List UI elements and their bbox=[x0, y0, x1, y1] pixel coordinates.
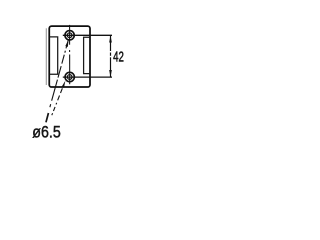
leader L1 tail tick bbox=[46, 113, 49, 122]
leader line L2 (bottom hole to label) dash segments bbox=[52, 88, 63, 115]
svg-text:42: 42 bbox=[113, 50, 124, 66]
hole H1 inner circle bbox=[67, 33, 72, 38]
extension line from hole H1 bbox=[63, 34, 112, 36]
svg-text:ø6.5: ø6.5 bbox=[32, 123, 61, 142]
dimension arrow up bbox=[109, 35, 112, 42]
extension line from hole H2 bbox=[63, 76, 112, 78]
plate outline bbox=[49, 26, 90, 87]
hole H1 outer circle bbox=[65, 31, 74, 40]
hole H2 outer circle bbox=[65, 72, 74, 81]
leader L1 arrowhead bbox=[65, 40, 68, 47]
vertical centerline bbox=[69, 25, 71, 84]
left slot bbox=[50, 37, 58, 74]
dimension arrow down bbox=[109, 70, 112, 77]
dimension line 42 bbox=[110, 35, 112, 77]
leader line L1 (top hole to label) dash segments bbox=[50, 40, 68, 107]
leader L2 arrowhead bbox=[62, 81, 66, 88]
left flange tangent line bbox=[45, 28, 47, 85]
right slot bbox=[84, 37, 90, 73]
hole H2 inner circle bbox=[67, 75, 72, 80]
